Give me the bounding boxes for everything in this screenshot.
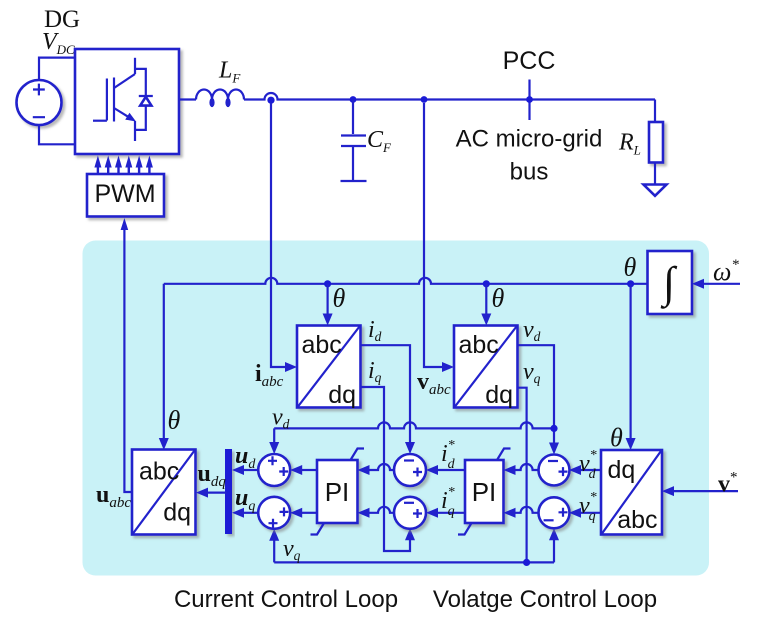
svg-text:v*: v*	[718, 470, 738, 498]
wire: main AC bus with hop at iabc node	[244, 93, 655, 100]
control panel background	[83, 241, 710, 576]
node PCC tick	[526, 80, 533, 121]
wire: theta drop to block2	[481, 284, 491, 326]
svg-text:abc: abc	[459, 331, 499, 359]
thick bar u_dq node	[225, 449, 232, 534]
svg-text:dq: dq	[608, 456, 636, 484]
svg-text:bus: bus	[510, 159, 549, 186]
wire: v_d from block2 down to junction	[518, 345, 560, 454]
wire: RL to ground	[654, 163, 656, 185]
v_d line junction dot	[550, 425, 557, 432]
wire: theta drop to block3	[159, 284, 169, 450]
svg-text:RL: RL	[618, 130, 641, 158]
svg-text:PCC: PCC	[503, 47, 556, 75]
wire: u_d summer L1 to bar	[232, 465, 258, 475]
wire: PI1 output to L1	[290, 465, 317, 475]
theta bus wire with hops	[164, 278, 648, 284]
ground	[644, 185, 667, 196]
wire: i_d from block1 to summer M1	[361, 345, 416, 454]
wire: source negative to inverter	[39, 125, 76, 145]
wire: v_d* block4 to R1	[569, 465, 601, 475]
inductor LF	[196, 90, 244, 108]
wire: v_d feedforward line with hops	[269, 422, 554, 454]
PI1 current controller	[311, 449, 365, 535]
theta bus junction dot B	[483, 280, 490, 287]
svg-text:θ: θ	[624, 253, 637, 282]
svg-text:θ: θ	[168, 406, 181, 435]
PI2 voltage controller	[458, 449, 511, 535]
svg-text:dq: dq	[163, 499, 191, 527]
svg-text:PWM: PWM	[94, 180, 155, 208]
DC source V1	[17, 80, 62, 125]
svg-text:VDC: VDC	[42, 29, 75, 57]
wire: PI2 output i_d* to M1	[426, 465, 465, 475]
omega* input wire	[692, 279, 740, 289]
wire: v_q* block4 to R2	[569, 508, 601, 518]
resistor RL	[649, 122, 663, 163]
wire: M1 output to PI1 with hop	[358, 464, 395, 475]
svg-text:ω*: ω*	[713, 257, 739, 286]
transistor Q1 IGBT	[93, 58, 136, 141]
v_q line junction dot	[523, 559, 530, 566]
summer R2	[539, 497, 570, 528]
wire: vabc measurement into block2	[424, 103, 454, 372]
svg-text:dq: dq	[328, 381, 356, 409]
wire: i_q from block1 to summer M2	[361, 387, 416, 551]
svg-text:AC micro-grid: AC micro-grid	[456, 126, 603, 153]
capacitor CF	[341, 100, 367, 182]
wire: source positive to inverter	[39, 58, 76, 81]
block2 abc/dq voltage transform U3	[454, 326, 518, 410]
svg-text:Current Control Loop: Current Control Loop	[174, 586, 398, 613]
wire: uabc up to PWM	[121, 218, 132, 492]
wire: R2 output to PI2 with hop	[504, 507, 540, 518]
summer M1	[394, 454, 426, 486]
wire: theta drop to block1	[323, 284, 333, 326]
block3 abc/dq output transform U4	[132, 450, 196, 535]
wire: iabc measurement into block1	[271, 103, 297, 372]
wire: R1 output to PI2 with hop	[504, 464, 540, 475]
wire: M2 output to PI1 with hop	[358, 507, 395, 518]
svg-text:dq: dq	[485, 381, 513, 409]
block1 abc/dq current transform U2	[297, 326, 361, 410]
PWM gate signal arrows	[94, 156, 152, 175]
svg-text:Volatge Control Loop: Volatge Control Loop	[433, 586, 657, 613]
summer L1	[258, 454, 290, 486]
wire: v* reference input	[662, 486, 738, 496]
wire: u_q summer L2 to bar	[232, 508, 258, 518]
svg-text:PI: PI	[472, 477, 497, 507]
svg-text:abc: abc	[617, 506, 657, 534]
wire: v_q from block2 down to junction	[518, 388, 527, 563]
integrator block	[648, 251, 693, 314]
wire: AC output bus left segment	[179, 98, 196, 100]
PWM block	[87, 174, 164, 217]
svg-text:θ: θ	[610, 423, 623, 452]
summer L2	[258, 497, 290, 529]
summer R1	[539, 455, 570, 486]
wire: bus corner down to RL	[654, 100, 656, 123]
svg-text:θ: θ	[492, 284, 505, 313]
wire: v_q distribution line	[269, 528, 559, 562]
wire: PI2 output i_q* to M2	[426, 508, 465, 518]
wire: u_dq bar to block3	[196, 488, 227, 498]
svg-text:abc: abc	[302, 331, 342, 359]
wire: PI1 output to L2	[290, 508, 317, 518]
block4 dq/abc reference transform U5	[601, 450, 662, 535]
summer M2	[394, 497, 426, 529]
inverter U1 box	[75, 49, 179, 154]
svg-text:PI: PI	[325, 477, 350, 507]
svg-text:LF: LF	[218, 58, 241, 86]
freewheel diode D1	[135, 69, 153, 130]
svg-text:abc: abc	[139, 458, 179, 486]
node CF junction dot	[350, 96, 357, 103]
theta bus junction dot C	[627, 280, 634, 287]
node iabc junction dot	[267, 97, 274, 104]
wire: theta drop to block4	[626, 284, 636, 450]
svg-text:CF: CF	[367, 127, 392, 155]
node vabc junction dot	[421, 96, 428, 103]
theta bus junction dot A	[324, 280, 331, 287]
svg-text:θ: θ	[333, 284, 346, 313]
